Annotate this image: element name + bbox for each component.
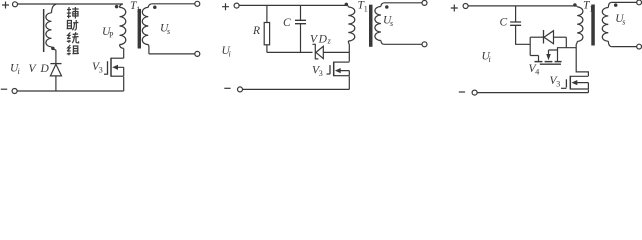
wire secondary bottom to output circuit 2	[384, 43, 422, 45]
transistor V3 c1 channel	[110, 58, 112, 77]
wire top rail circuit 3	[468, 5, 576, 7]
wire secondary bottom to output circuit 3	[611, 46, 636, 48]
node output terminal bottom circuit 3	[637, 44, 642, 49]
svg-text:D: D	[318, 33, 328, 45]
secondary winding Us circuit 1	[148, 4, 152, 8]
secondary polarity dot circuit 1	[153, 5, 157, 9]
svg-text:R: R	[252, 25, 260, 37]
transistor V4 MOSFET (horizontal, clamp switch)	[530, 56, 538, 62]
svg-text:C: C	[500, 17, 508, 29]
svg-text:s: s	[390, 19, 393, 28]
node output terminal top circuit 1	[195, 1, 200, 6]
transistor V3 c2 gate line	[329, 65, 331, 74]
transistor V3 c2 channel	[333, 62, 335, 77]
primary winding Up circuit 1	[120, 4, 123, 7]
svg-text:3: 3	[556, 80, 560, 89]
transistor V3 c2 source connection	[334, 75, 350, 77]
node + terminal positive input circuit 3	[451, 5, 458, 12]
wire V3 source to bottom rail circuit 1	[123, 77, 125, 91]
svg-text:s: s	[167, 27, 170, 36]
wire secondary top to output circuit 1	[152, 3, 195, 5]
transistor V3 c1 drain connection	[111, 57, 124, 59]
node + terminal positive input circuit 1	[2, 2, 9, 9]
secondary winding circuit 2	[381, 3, 384, 7]
node output terminal bottom circuit 1	[195, 51, 200, 56]
diode VD	[55, 50, 57, 64]
transistor V3 c3 gate lead	[561, 87, 566, 89]
wire top rail circuit 2	[239, 4, 347, 6]
svg-text:z: z	[327, 37, 332, 46]
svg-text:C: C	[283, 17, 291, 29]
primary polarity dot circuit 3	[573, 3, 577, 7]
transistor V3 c3 channel	[569, 76, 571, 90]
svg-text:s: s	[622, 18, 625, 27]
wire secondary top to output circuit 3	[611, 1, 636, 3]
primary polarity dot circuit 1	[115, 5, 119, 9]
transistor V3 c1 gate line	[107, 61, 109, 74]
node - terminal negative input circuit 3	[459, 91, 465, 93]
svg-text:i: i	[229, 50, 231, 59]
transistor V3 c2 gate lead	[327, 73, 331, 75]
wire secondary top to output circuit 2	[384, 2, 422, 4]
svg-text:P: P	[109, 31, 114, 40]
primary polarity dot circuit 2	[345, 3, 349, 7]
transformer T1 core circuit 3	[591, 5, 595, 46]
auxiliary winding polarity dot	[51, 47, 55, 51]
svg-text:1: 1	[136, 5, 140, 14]
transformer T1 core circuit 2	[369, 5, 373, 47]
svg-text:1: 1	[589, 4, 593, 13]
svg-text:4: 4	[535, 68, 539, 77]
wire bottom rail circuit 3	[477, 92, 588, 94]
transistor V3 c3 gate line	[565, 79, 567, 87]
resistor R	[266, 5, 268, 22]
node output terminal bottom circuit 2	[422, 42, 427, 47]
svg-text:1: 1	[364, 5, 368, 14]
wire bottom rail circuit 2	[243, 88, 350, 90]
wire diode to V4 source node	[565, 37, 567, 48]
wire top rail circuit 1	[18, 3, 123, 5]
primary winding circuit 3	[575, 6, 578, 7]
node - terminal negative input circuit 2	[224, 87, 230, 89]
svg-text:3: 3	[99, 66, 103, 75]
transistor V3 c1 gate lead	[104, 73, 108, 75]
wire V3 source to bottom rail circuit 2	[348, 76, 350, 89]
label auxiliary winding text (hand-drawn hanzi 辅助绕组)	[67, 7, 79, 55]
secondary polarity dot circuit 2	[385, 5, 389, 9]
wire V3 source to bottom rail circuit 3	[587, 90, 589, 93]
svg-text:D: D	[40, 63, 50, 75]
node output terminal top circuit 2	[422, 0, 427, 5]
zener diode VDz	[312, 44, 318, 59]
diode clamp circuit 3	[530, 36, 543, 38]
svg-text:V: V	[29, 63, 38, 75]
svg-text:i: i	[489, 55, 491, 64]
transistor V3 c3 source connection	[570, 88, 588, 90]
wire clamp left node	[529, 37, 531, 55]
auxiliary winding L1	[52, 4, 57, 13]
transistor V3 c3 drain connection	[570, 75, 588, 77]
transistor V3 c3 body arrow	[577, 83, 589, 89]
wire primary bottom to V3 drain circuit 1	[123, 48, 125, 58]
svg-text:3: 3	[319, 69, 323, 78]
secondary winding circuit 3	[608, 2, 611, 7]
transistor V3 c1 source connection	[111, 75, 124, 77]
transformer T1 core circuit 1	[138, 9, 141, 49]
wire bottom rail circuit 1	[17, 90, 124, 92]
wire primary bottom through clamp node to V3 drain	[348, 44, 350, 62]
auxiliary winding core bar	[43, 9, 45, 52]
wire clamp rail R C to zener	[267, 51, 313, 53]
wire secondary bottom to output circuit 1	[149, 53, 195, 55]
primary winding circuit 2	[347, 5, 350, 7]
capacitor C circuit 2	[300, 5, 302, 20]
transistor V3 c2 body arrow	[340, 71, 349, 76]
transistor V3 c1 body arrow	[118, 67, 124, 76]
node + terminal positive input circuit 2	[222, 3, 229, 10]
wire primary bottom and clamp to V3 drain circuit 3	[576, 44, 588, 76]
transistor V3 c2 drain connection	[334, 61, 350, 63]
node output terminal top circuit 3	[637, 0, 642, 5]
node - terminal negative input circuit 1	[1, 88, 7, 90]
capacitor C circuit 3 (clamp)	[515, 6, 517, 22]
svg-text:i: i	[18, 67, 20, 76]
secondary polarity dot circuit 3	[614, 3, 618, 7]
